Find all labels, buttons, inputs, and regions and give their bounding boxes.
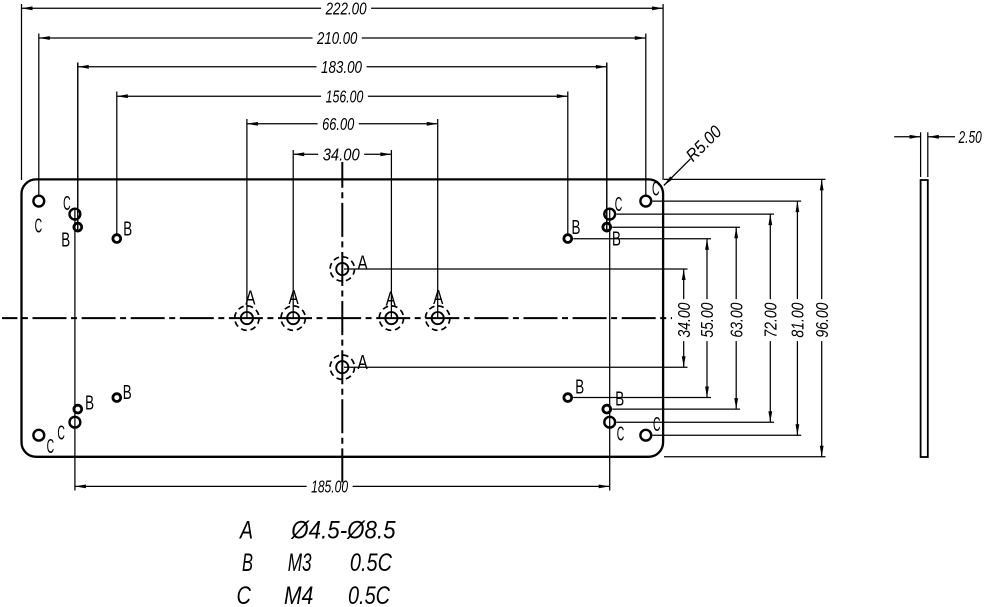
- hole B top-left outer (M3): [113, 235, 121, 243]
- svg-text:183.00: 183.00: [321, 57, 362, 77]
- svg-text:B: B: [123, 382, 132, 404]
- svg-text:C: C: [47, 436, 55, 458]
- hole C top-right outer (M4): [640, 196, 651, 207]
- svg-text:96.00: 96.00: [812, 302, 832, 337]
- svg-text:C: C: [617, 423, 625, 445]
- side view plate section (2.50 thick): [921, 180, 928, 457]
- dimension 156.00 (horizontal): [116, 92, 118, 234]
- dimension 222.00 (horizontal): [21, 4, 23, 180]
- svg-text:72.00: 72.00: [761, 302, 781, 337]
- svg-text:55.00: 55.00: [697, 302, 717, 337]
- svg-text:0.5C: 0.5C: [348, 582, 391, 607]
- svg-text:66.00: 66.00: [322, 114, 354, 134]
- hole A6 bottom (Ø4.5 thru, Ø8.5 c'bore): [336, 361, 348, 373]
- hole A3 (Ø4.5 thru, Ø8.5 c'bore): [385, 312, 397, 324]
- hole C bottom-left outer (M4): [33, 430, 44, 441]
- svg-text:185.00: 185.00: [311, 477, 348, 497]
- hole A2 (Ø4.5 thru, Ø8.5 c'bore): [287, 312, 299, 324]
- svg-text:2.50: 2.50: [958, 127, 982, 147]
- svg-text:B: B: [123, 219, 132, 241]
- hole C bottom-right outer (M4): [640, 430, 651, 441]
- extension line C inner bottom to 72 dim: [617, 421, 775, 423]
- extension line A top hole to 34 dim: [344, 268, 688, 270]
- svg-text:A: A: [245, 288, 256, 310]
- svg-text:B: B: [612, 229, 621, 251]
- svg-text:C: C: [237, 582, 252, 607]
- svg-text:B: B: [575, 377, 584, 399]
- svg-text:A: A: [358, 352, 369, 374]
- svg-text:B: B: [61, 230, 70, 252]
- extension line stub through B holes right: [606, 63, 608, 233]
- hole B top-right inner (M3): [603, 223, 611, 231]
- svg-text:B: B: [85, 393, 94, 415]
- hole B bottom-right inner (M3): [603, 405, 611, 413]
- dimension 63.00 (vertical): [735, 227, 737, 299]
- hole B bottom-right outer (M3): [564, 394, 572, 402]
- svg-text:34.00: 34.00: [674, 302, 694, 337]
- svg-text:C: C: [35, 216, 43, 238]
- dimension 34.00 (vertical): [683, 269, 685, 299]
- extension line B outer top to 55 dim: [573, 238, 711, 240]
- svg-text:M3: M3: [288, 549, 312, 577]
- svg-text:R5.00: R5.00: [682, 121, 726, 165]
- extension line B inner top to 63 dim: [612, 226, 740, 228]
- dimension 2.50 (side view thickness): [920, 132, 922, 177]
- hole B top-left inner (M3): [74, 223, 82, 231]
- horizontal centerline: [2, 317, 672, 319]
- svg-text:C: C: [652, 179, 660, 201]
- extension line C outer bottom to 81 dim: [653, 434, 802, 436]
- svg-text:C: C: [615, 194, 623, 216]
- dimension 81.00 (vertical): [796, 201, 798, 299]
- dimension 72.00 (vertical): [769, 214, 771, 299]
- dimension 55.00 (vertical): [706, 239, 708, 299]
- hole B top-right outer (M3): [564, 235, 572, 243]
- extension line B inner bottom to 63 dim: [612, 408, 740, 410]
- dimension 66.00 (horizontal): [246, 119, 248, 318]
- hole C bottom-right inner (M4): [604, 417, 615, 428]
- svg-text:222.00: 222.00: [325, 0, 367, 19]
- hole C top-left inner (M4): [70, 209, 81, 220]
- hole A5 top (Ø4.5 thru, Ø8.5 c'bore): [336, 263, 348, 275]
- dimension 210.00 (horizontal): [38, 34, 40, 196]
- svg-text:34.00: 34.00: [323, 145, 360, 165]
- extension line C inner top to 72 dim: [617, 213, 775, 215]
- dimension 185.00 (horizontal bottom): [74, 208, 76, 491]
- hole B bottom-left inner (M3): [74, 405, 82, 413]
- svg-text:A: A: [386, 288, 397, 310]
- svg-text:M4: M4: [284, 582, 313, 607]
- svg-text:81.00: 81.00: [788, 302, 808, 337]
- hole A4 (Ø4.5 thru, Ø8.5 c'bore): [432, 312, 444, 324]
- hole C top-right inner (M4): [604, 209, 615, 220]
- svg-text:B: B: [572, 217, 581, 239]
- svg-text:A: A: [289, 287, 300, 309]
- hole A1 (Ø4.5 thru, Ø8.5 c'bore): [241, 312, 253, 324]
- dimension 96.00 (vertical): [821, 179, 823, 299]
- svg-text:210.00: 210.00: [316, 28, 357, 48]
- svg-text:0.5C: 0.5C: [350, 549, 393, 577]
- svg-text:156.00: 156.00: [326, 86, 364, 106]
- extension line plate top edge to 96 dim: [664, 178, 826, 180]
- svg-text:C: C: [57, 422, 65, 444]
- plate outline (front view, R5 rounded rect): [22, 179, 664, 456]
- svg-text:63.00: 63.00: [726, 302, 746, 337]
- extension line A bottom hole to 34 dim: [344, 366, 688, 368]
- hole B bottom-left outer (M3): [113, 394, 121, 402]
- extension line plate bottom edge to 96 dim: [664, 456, 826, 458]
- svg-text:A: A: [358, 253, 369, 275]
- svg-text:A: A: [238, 517, 253, 545]
- svg-text:A: A: [433, 287, 444, 309]
- svg-text:B: B: [615, 389, 624, 411]
- svg-text:B: B: [242, 549, 253, 577]
- extension line B outer bottom to 55 dim: [573, 397, 711, 399]
- svg-text:C: C: [63, 193, 71, 215]
- dimension 183.00 (horizontal): [77, 63, 79, 233]
- svg-text:C: C: [653, 414, 661, 436]
- leader R5.00 corner radius: [664, 159, 691, 186]
- vertical centerline: [341, 162, 343, 487]
- extension line stub through B holes left: [77, 63, 79, 233]
- extension line C outer top to 81 dim: [653, 200, 802, 202]
- dimension 34.00 (horizontal): [292, 150, 294, 318]
- hole C top-left outer (M4): [33, 196, 44, 207]
- hole C bottom-left inner (M4): [70, 417, 81, 428]
- svg-text:Ø4.5-Ø8.5: Ø4.5-Ø8.5: [290, 517, 395, 545]
